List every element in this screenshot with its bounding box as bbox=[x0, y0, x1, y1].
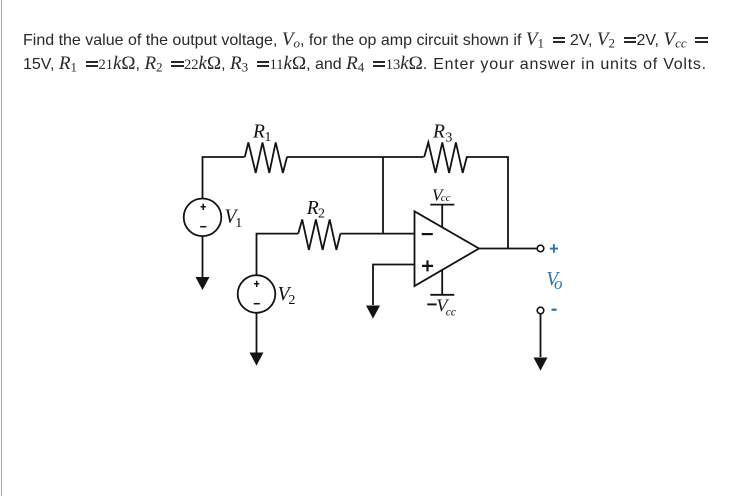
svg-text:o: o bbox=[554, 274, 563, 293]
wire top-left from V1 up and right to R1 bbox=[203, 157, 245, 199]
svg-text:R: R bbox=[252, 121, 265, 142]
wire to op-amp non-inverting input bbox=[373, 265, 415, 306]
op-amp output wire bbox=[479, 248, 537, 250]
left border bbox=[1, 0, 2, 496]
svg-text:cc: cc bbox=[446, 306, 456, 318]
Vcc supply bar bbox=[430, 205, 454, 227]
output plus terminal bbox=[537, 245, 544, 252]
wire below minus terminal bbox=[540, 314, 542, 357]
ground arrow under plus input bbox=[366, 306, 380, 319]
ground arrow under minus terminal bbox=[534, 358, 548, 371]
wire junction down to inverting input line bbox=[382, 157, 384, 234]
resistor R2 bbox=[298, 220, 340, 250]
wire R1 to R3 bbox=[287, 156, 424, 158]
svg-text:2: 2 bbox=[318, 207, 325, 222]
wire R3 right then down to output node bbox=[466, 157, 508, 249]
op-amp U1 bbox=[415, 211, 480, 286]
blue plus sign bbox=[550, 244, 558, 253]
blue minus sign bbox=[552, 309, 557, 311]
svg-text:2: 2 bbox=[288, 293, 295, 308]
voltage source V2 bbox=[238, 275, 276, 313]
ground arrow under V2 bbox=[250, 353, 264, 366]
svg-text:R: R bbox=[306, 198, 319, 219]
svg-text:3: 3 bbox=[445, 130, 452, 145]
op-amp plus input sign bbox=[422, 260, 433, 271]
wire V2 bottom to ground arrow bbox=[256, 313, 258, 353]
label -Vcc bbox=[427, 303, 436, 305]
wire V2 corner right to R2 bbox=[257, 234, 299, 275]
output minus terminal bbox=[537, 307, 544, 314]
wire R2 to op-amp inverting input bbox=[340, 233, 414, 235]
ground arrow under V1 bbox=[196, 277, 210, 290]
voltage source V1 bbox=[184, 199, 222, 237]
svg-text:cc: cc bbox=[441, 192, 451, 204]
resistor R1 bbox=[245, 142, 287, 173]
svg-text:R: R bbox=[432, 121, 445, 142]
-Vcc supply bar bbox=[430, 270, 454, 295]
wire V1 bottom to ground arrow bbox=[202, 236, 204, 278]
svg-text:1: 1 bbox=[235, 216, 242, 231]
svg-text:1: 1 bbox=[264, 130, 271, 145]
op-amp minus input sign bbox=[422, 233, 433, 235]
resistor R3 bbox=[424, 142, 467, 173]
